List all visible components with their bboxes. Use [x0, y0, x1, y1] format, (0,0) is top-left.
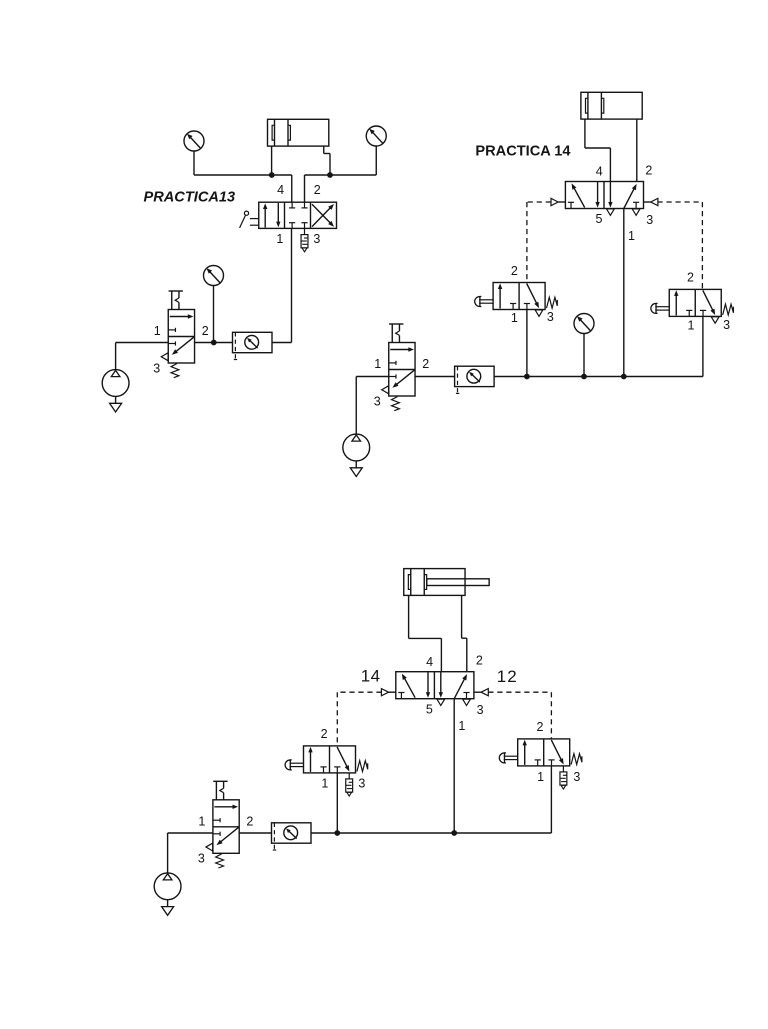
svg-text:1: 1	[628, 229, 635, 243]
svg-text:3: 3	[153, 361, 160, 375]
svg-text:2: 2	[202, 324, 209, 338]
svg-text:PRACTICA13: PRACTICA13	[144, 190, 236, 206]
svg-text:5: 5	[426, 702, 433, 716]
svg-text:3: 3	[198, 852, 205, 866]
svg-text:3: 3	[723, 318, 730, 332]
svg-text:3: 3	[374, 394, 381, 408]
svg-text:4: 4	[371, 667, 380, 686]
svg-text:1: 1	[361, 667, 370, 686]
svg-text:3: 3	[477, 703, 484, 717]
svg-text:1: 1	[321, 777, 328, 791]
svg-text:3: 3	[358, 777, 365, 791]
svg-text:3: 3	[646, 213, 653, 227]
svg-text:1: 1	[497, 667, 506, 686]
svg-text:1: 1	[374, 357, 381, 371]
svg-text:2: 2	[476, 654, 483, 668]
svg-text:4: 4	[426, 655, 433, 669]
svg-text:PRACTICA 14: PRACTICA 14	[475, 144, 571, 160]
svg-text:3: 3	[547, 310, 554, 324]
svg-text:2: 2	[687, 271, 694, 285]
svg-text:3: 3	[573, 770, 580, 784]
svg-text:1: 1	[511, 311, 518, 325]
svg-text:2: 2	[507, 667, 516, 686]
svg-text:2: 2	[537, 720, 544, 734]
svg-text:1: 1	[198, 814, 205, 828]
svg-text:1: 1	[537, 770, 544, 784]
svg-text:2: 2	[314, 183, 321, 197]
svg-text:2: 2	[321, 727, 328, 741]
svg-text:2: 2	[246, 814, 253, 828]
svg-text:2: 2	[645, 163, 652, 177]
svg-text:1: 1	[276, 232, 283, 246]
svg-text:1: 1	[154, 324, 161, 338]
svg-text:5: 5	[596, 212, 603, 226]
svg-text:2: 2	[511, 264, 518, 278]
svg-text:4: 4	[277, 183, 284, 197]
svg-text:2: 2	[422, 357, 429, 371]
svg-text:1: 1	[458, 719, 465, 733]
svg-text:4: 4	[596, 165, 603, 179]
svg-text:3: 3	[313, 232, 320, 246]
svg-text:1: 1	[688, 319, 695, 333]
